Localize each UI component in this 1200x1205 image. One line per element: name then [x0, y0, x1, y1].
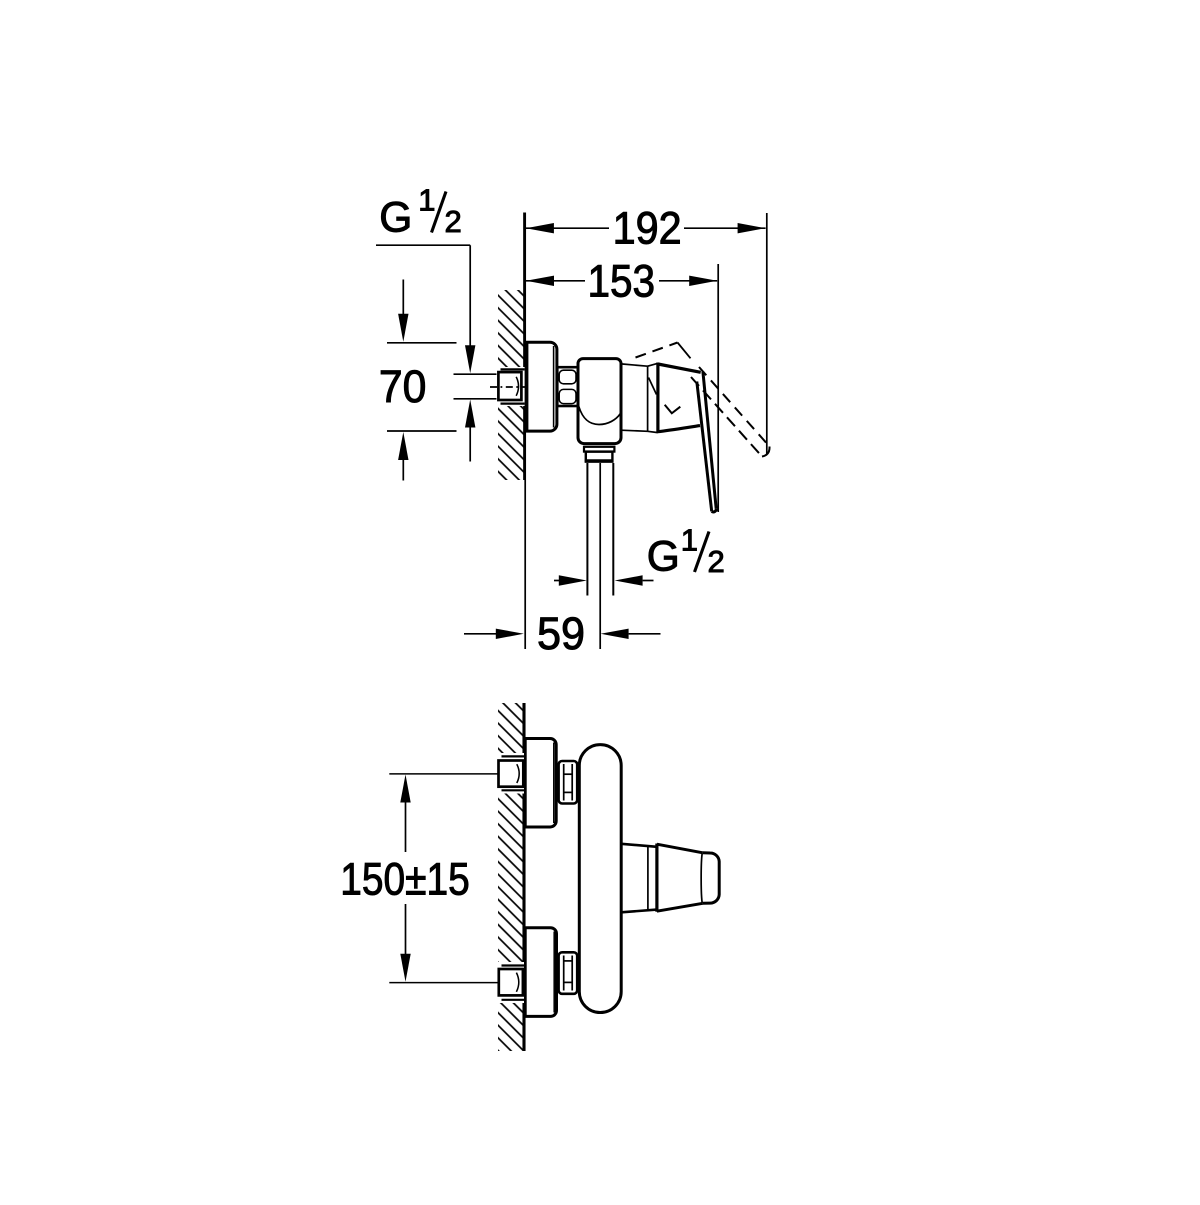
svg-text:59: 59	[537, 609, 585, 659]
cone highlight line	[649, 378, 657, 395]
handle flange (front view)	[655, 844, 658, 912]
handle skirt edge (side view)	[656, 363, 659, 434]
mixer body capsule (front view)	[579, 745, 621, 1013]
supply stub (hex nut behind wall)	[498, 372, 521, 400]
wall face line (front view)	[522, 703, 525, 1051]
hose centerline	[599, 463, 601, 649]
dimension 59	[464, 633, 497, 635]
svg-text:2: 2	[445, 204, 462, 239]
handle grip (front view)	[703, 853, 719, 904]
wall face line (side view)	[523, 213, 526, 481]
handle bottom edge	[658, 426, 700, 432]
body bottom arc	[579, 407, 621, 425]
dimension line 153	[526, 280, 585, 282]
upper supply nut flange lines	[502, 755, 525, 757]
supply stub centerline (dash-dot)	[516, 377, 518, 396]
hose nipple	[586, 452, 613, 462]
lower supply nut	[499, 969, 523, 995]
supply stub lower arrow	[469, 427, 471, 462]
union nut (side view)	[557, 367, 578, 406]
wall hatching (front view)	[498, 703, 524, 1051]
cartridge cone (side view)	[621, 364, 648, 366]
svg-text:1: 1	[681, 523, 698, 558]
lower union nut (front view)	[559, 952, 578, 994]
dimension 70: extension lines	[387, 342, 457, 344]
lower escutcheon (front view)	[525, 928, 556, 1017]
dashed alternate handle position	[636, 343, 678, 358]
dimension 150±15 extension lines	[389, 773, 497, 775]
upper union nut (front view)	[559, 761, 578, 804]
dimension 150±15 line + arrows	[400, 775, 410, 803]
leader line for G 1/2 (top)	[376, 244, 470, 246]
extension line for 192	[766, 213, 768, 455]
supply stub flange lines	[501, 368, 525, 370]
svg-text:150±15: 150±15	[340, 854, 469, 905]
lever (side view)	[703, 372, 716, 509]
handle V mark	[665, 405, 681, 414]
handle neck (front view)	[621, 844, 657, 847]
escutcheon (side view)	[527, 342, 557, 431]
dimension 70: bottom arrow	[402, 459, 404, 481]
upper escutcheon (front view)	[525, 739, 556, 828]
extension line for 153	[717, 264, 719, 512]
hose thread arrows	[554, 580, 560, 582]
wall hatching (side view)	[498, 290, 525, 480]
wall face extension line down to 59 dimension	[524, 480, 526, 649]
shower hose lines	[586, 463, 588, 596]
dimension line 192	[526, 227, 609, 229]
supply stub white backing	[497, 367, 525, 406]
dimension 70: top arrow	[402, 280, 404, 316]
svg-text:70: 70	[379, 362, 427, 412]
upper supply nut	[499, 761, 524, 787]
dashed lever tip	[762, 447, 770, 457]
svg-text:2: 2	[708, 544, 725, 579]
supply stub extension lines (G 1/2 thread)	[454, 373, 499, 375]
dashed lever inner edge	[691, 377, 762, 457]
svg-text:153: 153	[588, 256, 656, 307]
hose collar	[584, 447, 614, 452]
handle cone (front view)	[657, 844, 703, 853]
upper supply nut white backing	[496, 753, 524, 794]
lower supply nut flange lines	[502, 964, 525, 966]
handle top edge	[658, 364, 701, 372]
svg-text:G: G	[379, 195, 412, 242]
svg-text:1: 1	[418, 183, 435, 218]
svg-text:G: G	[647, 534, 680, 581]
dashed lever outer edge	[699, 367, 770, 447]
mixer body (side view)	[578, 359, 621, 444]
lower supply nut white backing	[496, 962, 524, 1003]
grip junction curve	[701, 853, 702, 903]
svg-text:192: 192	[613, 204, 682, 254]
